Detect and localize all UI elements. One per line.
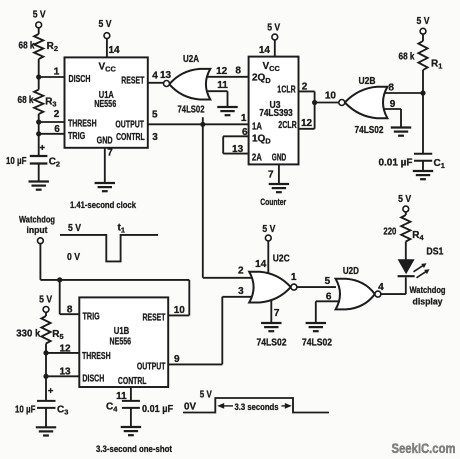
- power terminal 5V (top of R2): [33, 10, 46, 35]
- ground below C4: [121, 426, 141, 428]
- svg-text:OUTPUT: OUTPUT: [115, 120, 144, 131]
- svg-text:Counter: Counter: [260, 197, 286, 207]
- waveform output trace: [183, 398, 329, 413]
- waveform input pulse trace: [60, 235, 158, 262]
- svg-text:3: 3: [152, 132, 158, 143]
- wire to U1B pin 10 RESET: [168, 280, 189, 316]
- svg-text:6: 6: [54, 124, 60, 135]
- svg-text:GND: GND: [97, 136, 113, 147]
- svg-text:14: 14: [259, 45, 271, 56]
- nor-gate U2D 74LS02: [336, 266, 381, 309]
- svg-text:5 V: 5 V: [262, 224, 275, 235]
- junction node pin6: [36, 131, 41, 136]
- nor-gate U2A 74LS02: [164, 54, 211, 116]
- svg-text:Watchdog: Watchdog: [19, 214, 55, 224]
- wire LED cathode to output node: [405, 277, 407, 294]
- svg-text:9: 9: [174, 354, 180, 365]
- svg-text:5 V: 5 V: [68, 223, 81, 234]
- svg-text:12: 12: [59, 343, 71, 354]
- capacitor C4 0.01uF: [106, 401, 173, 427]
- svg-text:U2D: U2D: [343, 266, 359, 277]
- svg-text:0.01 µF: 0.01 µF: [379, 158, 413, 169]
- svg-text:Watchdog: Watchdog: [410, 285, 446, 295]
- svg-text:5 V: 5 V: [417, 16, 430, 27]
- svg-text:NE556: NE556: [110, 337, 132, 348]
- wire node to U1A pin 1 DISCH: [39, 67, 65, 78]
- svg-text:13: 13: [59, 367, 71, 378]
- svg-text:12: 12: [301, 118, 313, 129]
- power terminal 5V (top of R4): [398, 194, 411, 215]
- svg-text:4: 4: [152, 70, 158, 81]
- wire joining pins 2,12: [314, 91, 316, 128]
- junction R1/C1/U2B-8 node: [420, 90, 425, 95]
- wire U2D input 6 to ground: [316, 291, 342, 323]
- svg-text:CONTRL: CONTRL: [116, 132, 145, 143]
- svg-text:1: 1: [291, 272, 297, 283]
- wire U2B input 9 to ground: [381, 99, 401, 128]
- svg-text:U2C: U2C: [273, 254, 290, 265]
- svg-text:5 V: 5 V: [33, 10, 46, 21]
- junction watchdog node: [57, 277, 62, 282]
- junction clear node: [312, 100, 317, 105]
- svg-text:2: 2: [54, 109, 60, 120]
- U2C pin 14 VCC with 5V terminal: [255, 224, 290, 275]
- svg-text:THRESH: THRESH: [82, 351, 111, 362]
- LED DS1: [398, 246, 444, 277]
- wire U1A RESET pins 4,13 to U2A output: [148, 70, 172, 83]
- svg-text:5 V: 5 V: [39, 295, 52, 306]
- svg-text:10 µF: 10 µF: [15, 404, 36, 415]
- svg-text:9: 9: [390, 99, 396, 110]
- label Watchdog display: [410, 285, 446, 307]
- junction node pin12: [43, 350, 48, 355]
- wire U1B pin 11 CONTRL to C4: [116, 387, 131, 402]
- ground at U2C pin 7: [261, 322, 281, 324]
- svg-text:5 V: 5 V: [99, 19, 112, 30]
- svg-text:14: 14: [109, 45, 121, 56]
- arrow right 3.3s: [282, 403, 292, 409]
- svg-text:68 k: 68 k: [19, 41, 35, 52]
- svg-text:3: 3: [238, 286, 244, 297]
- svg-text:2A: 2A: [252, 153, 262, 164]
- junction node pin2: [36, 119, 41, 124]
- svg-text:74LS393: 74LS393: [259, 108, 293, 119]
- wire clock vertical to U2C input 2: [200, 117, 256, 277]
- svg-text:U1B: U1B: [114, 326, 130, 337]
- svg-text:2: 2: [302, 81, 308, 92]
- power terminal 5V (top of R1): [417, 16, 430, 41]
- wire U2A input 11 to ground: [207, 80, 228, 107]
- svg-text:U2A: U2A: [183, 54, 199, 65]
- svg-text:220: 220: [383, 226, 396, 237]
- svg-text:12: 12: [216, 66, 228, 77]
- arrow left 3.3s: [217, 403, 233, 409]
- svg-text:DISCH: DISCH: [69, 74, 91, 85]
- resistor R3 68k: [18, 77, 57, 114]
- wire U3 pin 6 1QD feedback: [223, 127, 248, 138]
- svg-text:7: 7: [274, 308, 280, 319]
- resistor R2 68k: [19, 34, 58, 59]
- svg-text:DISCH: DISCH: [82, 374, 104, 385]
- wire U2C output 1 to U2D input 5: [291, 272, 336, 287]
- svg-text:5: 5: [325, 276, 331, 287]
- capacitor C2 10uF: [6, 134, 60, 182]
- wire node to U1B pin 8 TRIG: [60, 280, 80, 316]
- wire U3 pin 12 2CLR: [299, 118, 315, 129]
- counter U3 74LS393: [249, 57, 299, 165]
- capacitor C1 0.01uF: [379, 154, 445, 171]
- svg-text:7: 7: [268, 170, 274, 181]
- wire U3 pin 13 2A: [223, 144, 248, 155]
- wire to DISCH node: [45, 353, 47, 376]
- U1A pin 7 GND: [95, 148, 115, 192]
- U3 pin 7 GND: [268, 164, 289, 192]
- svg-text:10: 10: [174, 305, 186, 316]
- svg-text:2CLR: 2CLR: [278, 120, 297, 131]
- svg-text:RESET: RESET: [143, 313, 166, 324]
- svg-text:GND: GND: [272, 153, 287, 164]
- ground below C1: [413, 170, 433, 172]
- svg-text:5 V: 5 V: [267, 22, 280, 33]
- wire U1A OUTPUT pin 5 to U3 pin 1: [148, 110, 249, 125]
- wire R3 to THRESH node: [38, 114, 40, 122]
- wire to TRIG node: [38, 122, 40, 134]
- ground below C2: [29, 180, 49, 182]
- svg-text:8: 8: [67, 304, 73, 315]
- op-amp-box U1A NE556 timer: [65, 57, 148, 147]
- wire U2C input 3: [222, 286, 256, 297]
- svg-text:1: 1: [241, 113, 247, 124]
- wire U2D output 4 to display: [378, 282, 406, 294]
- svg-text:RESET: RESET: [121, 76, 144, 87]
- svg-text:1CLR: 1CLR: [277, 84, 296, 95]
- ground at U2D input 6: [306, 322, 326, 324]
- wire feedback vertical: [222, 136, 224, 153]
- svg-text:3.3-second one-shot: 3.3-second one-shot: [96, 444, 172, 454]
- svg-text:SeekIC.com: SeekIC.com: [392, 441, 456, 457]
- svg-text:6: 6: [326, 291, 332, 302]
- svg-text:OUTPUT: OUTPUT: [137, 362, 166, 373]
- svg-text:1.41-second clock: 1.41-second clock: [70, 200, 137, 210]
- svg-text:0V: 0V: [184, 402, 196, 413]
- resistor R4 220: [383, 215, 424, 242]
- junction node R2/R3/pin1: [36, 74, 41, 79]
- svg-text:74LS02: 74LS02: [257, 337, 287, 348]
- capacitor C3 10uF: [15, 376, 68, 427]
- wire node to U1B pin 13 DISCH: [46, 367, 79, 378]
- svg-text:13: 13: [232, 144, 244, 155]
- resistor R1 68k: [399, 41, 443, 71]
- svg-text:330 k: 330 k: [16, 329, 40, 340]
- wire node to U1A pin 2 THRESH: [39, 109, 65, 122]
- ground below C3: [36, 426, 56, 428]
- svg-text:5 V: 5 V: [398, 194, 411, 205]
- svg-text:74LS02: 74LS02: [178, 104, 205, 115]
- svg-text:8: 8: [235, 66, 241, 77]
- svg-text:TRIG: TRIG: [68, 131, 85, 142]
- svg-text:1: 1: [54, 67, 60, 78]
- svg-text:1A: 1A: [252, 121, 262, 132]
- nor-gate U2C 74LS02: [249, 272, 297, 303]
- wire R4 to LED: [405, 242, 407, 260]
- svg-text:10 µF: 10 µF: [6, 156, 27, 167]
- power terminal 5V (top of R5): [39, 295, 52, 316]
- svg-text:14: 14: [255, 259, 267, 270]
- svg-text:4: 4: [378, 282, 384, 293]
- wire node to U1A pin 6 TRIG: [39, 124, 65, 135]
- wire U3 pin 2 1CLR: [299, 81, 315, 92]
- svg-text:DS1: DS1: [426, 246, 443, 257]
- ground at U2A input 11: [217, 106, 237, 108]
- svg-text:THRESH: THRESH: [68, 118, 97, 129]
- wire node 10 to U2B output: [315, 90, 339, 102]
- svg-text:68 k: 68 k: [399, 52, 415, 63]
- svg-text:input: input: [27, 225, 48, 235]
- ground at U2B input 9: [391, 126, 411, 128]
- svg-text:68 k: 68 k: [18, 95, 34, 106]
- svg-text:5: 5: [152, 110, 158, 121]
- wire U2A input 12 to U3 pin 8: [206, 66, 249, 78]
- wire node to U1B pin 12 THRESH: [46, 343, 79, 354]
- one-shot U1B NE556: [79, 297, 168, 387]
- svg-text:7: 7: [107, 148, 113, 159]
- svg-text:TRIG: TRIG: [83, 312, 100, 323]
- svg-text:2: 2: [238, 266, 244, 277]
- svg-text:8: 8: [388, 83, 394, 94]
- wire watchdog input down: [39, 244, 41, 280]
- U3 pin 14 VCC with 5V terminal: [259, 22, 281, 56]
- svg-text:0 V: 0 V: [67, 252, 80, 263]
- U2C pin 7 ground wire: [271, 298, 280, 323]
- resistor R5 330k: [16, 316, 63, 344]
- wire U1B OUTPUT pin 9 to U2C input 3: [168, 297, 222, 365]
- svg-text:display: display: [413, 296, 443, 306]
- svg-text:3.3 seconds: 3.3 seconds: [235, 402, 279, 412]
- wire watchdog horizontal: [40, 279, 189, 281]
- wire R1 to C1: [422, 70, 424, 154]
- svg-text:0.01 µF: 0.01 µF: [142, 404, 173, 415]
- wire U2B input 8 to R1/C1 node: [381, 83, 423, 94]
- U1A pin 14 VCC with 5V terminal: [99, 19, 121, 58]
- svg-text:CONTRL: CONTRL: [118, 376, 147, 387]
- svg-text:6: 6: [242, 127, 248, 138]
- svg-text:5 V: 5 V: [200, 389, 212, 400]
- watchdog input terminal: [19, 214, 55, 243]
- wire R5 to THRESH node: [45, 344, 47, 353]
- svg-text:U2B: U2B: [359, 76, 376, 87]
- wire R2 to node: [38, 59, 40, 77]
- svg-text:11: 11: [217, 80, 228, 91]
- svg-text:74LS02: 74LS02: [355, 125, 384, 136]
- nor-gate U2B 74LS02: [339, 76, 388, 136]
- svg-text:74LS02: 74LS02: [302, 337, 332, 348]
- svg-text:13: 13: [160, 70, 172, 81]
- junction node pin13: [43, 374, 48, 379]
- svg-text:NE556: NE556: [94, 99, 116, 110]
- svg-text:10: 10: [325, 90, 337, 101]
